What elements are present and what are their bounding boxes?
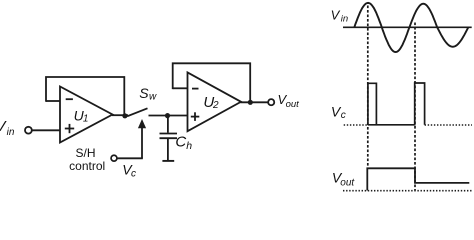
wire Vc control vertical <box>141 128 143 159</box>
wire switch fixed contact to U2 <box>149 115 188 117</box>
svg-text:C: C <box>175 134 186 151</box>
sampling dashed line 2 <box>414 23 416 191</box>
wire Vc control horizontal <box>117 157 143 159</box>
svg-text:c: c <box>341 110 346 121</box>
wire Vin waveform axis <box>343 26 472 28</box>
svg-text:control: control <box>69 159 105 173</box>
wire U1 inverting input <box>46 100 60 102</box>
Vout dotted baseline <box>343 190 472 192</box>
wire Vin to U1 noninverting input <box>32 129 60 131</box>
U2 plus sign <box>191 112 200 121</box>
svg-text:h: h <box>186 140 192 152</box>
Vc dotted baseline left <box>344 124 368 126</box>
U2 minus sign <box>192 88 199 90</box>
svg-text:S: S <box>139 85 149 101</box>
node U2 output junction <box>248 100 253 105</box>
wire U2 feedback loop <box>173 63 251 102</box>
capacitor Ch top plate <box>160 133 178 135</box>
svg-text:2: 2 <box>212 100 219 111</box>
wire junction to capacitor <box>167 116 169 133</box>
U1 plus sign <box>65 124 74 133</box>
node Vout terminal <box>268 99 274 105</box>
Vc control arrow <box>138 119 146 128</box>
ground bar below capacitor <box>162 160 174 162</box>
sampling dashed line 1 <box>367 6 369 170</box>
Vc dotted baseline right <box>425 124 472 126</box>
capacitor Ch bottom plate <box>160 137 178 139</box>
Vin sine waveform <box>354 3 468 52</box>
svg-text:S/H: S/H <box>75 146 95 160</box>
wire U2 inverting input <box>173 87 188 89</box>
svg-text:out: out <box>340 177 355 188</box>
wire U2 output <box>241 101 268 103</box>
svg-text:w: w <box>149 91 157 102</box>
op-amp U2 <box>188 72 242 131</box>
op-amp U1 <box>60 87 113 143</box>
wire U1 feedback loop <box>46 77 124 115</box>
switch Sw arm <box>127 108 147 116</box>
svg-text:V: V <box>331 8 341 23</box>
node Vc terminal <box>111 155 117 161</box>
svg-text:1: 1 <box>83 114 89 125</box>
svg-text:c: c <box>131 168 136 179</box>
svg-text:out: out <box>286 99 300 110</box>
node U1 output junction <box>122 113 127 118</box>
U1 minus sign <box>66 98 73 100</box>
wire U1 output <box>112 114 128 116</box>
svg-text:in: in <box>7 127 15 138</box>
Vout staircase waveform <box>367 168 469 190</box>
node capacitor junction <box>165 113 170 118</box>
wire capacitor bottom stub <box>167 139 169 160</box>
node Vin input terminal <box>25 127 32 134</box>
Vc pulse waveform <box>368 83 425 125</box>
svg-text:in: in <box>341 13 348 24</box>
